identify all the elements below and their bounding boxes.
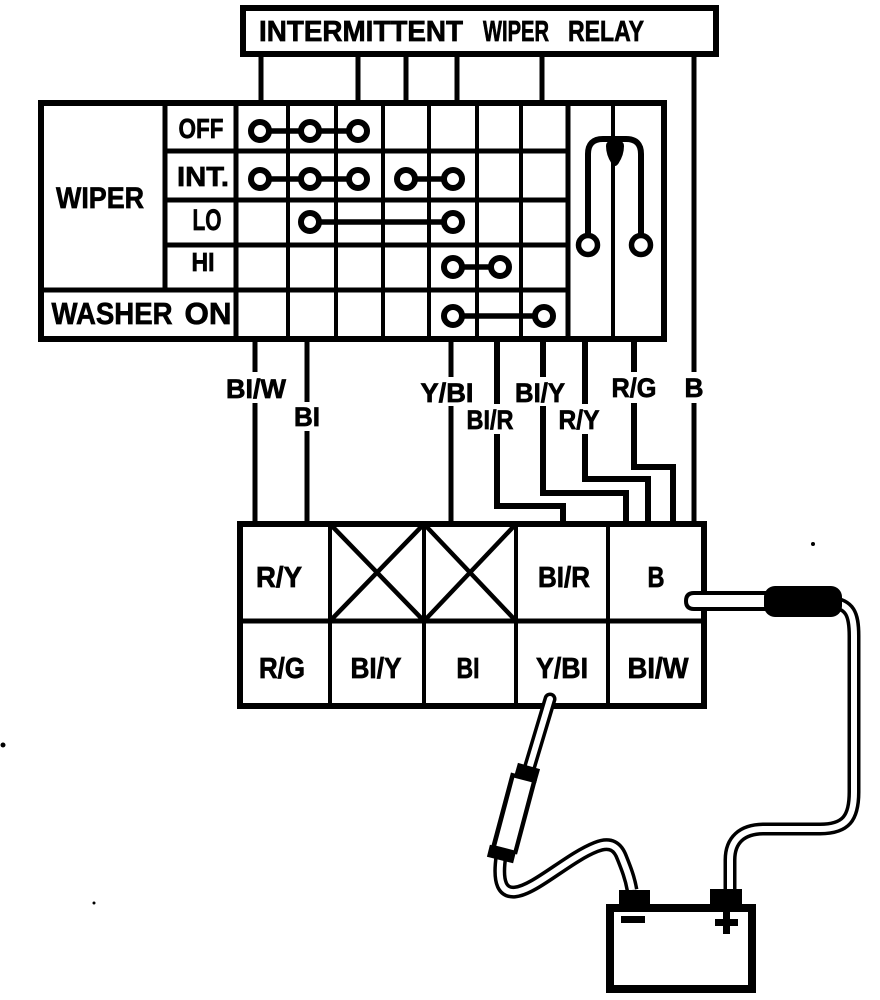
divider WIPER/positions [163, 103, 168, 290]
speck left margin [1, 743, 6, 748]
svg-text:BI/Y: BI/Y [515, 378, 565, 408]
wire stub 2 (title to switch col3) [356, 54, 361, 106]
svg-text:R/Y: R/Y [559, 405, 600, 435]
right test lead cable [730, 602, 854, 893]
wire BI [305, 339, 310, 524]
battery box [610, 908, 752, 989]
wire R/G [634, 339, 673, 524]
INT row contact circles 2 [397, 170, 415, 188]
battery plus sign [715, 911, 738, 934]
svg-text:RELAY: RELAY [568, 16, 644, 48]
right probe rod [686, 593, 772, 609]
label BI [292, 402, 322, 432]
label BI/Y [514, 377, 567, 408]
wire stub 4 (title to switch col5) [455, 54, 460, 106]
LO row contact circles [301, 213, 319, 231]
INT row contact bar 1 [260, 176, 358, 182]
svg-text:BI/W: BI/W [628, 653, 690, 685]
svg-text:R/Y: R/Y [256, 562, 302, 594]
right probe handle [764, 586, 842, 617]
speck right of connector [811, 542, 815, 546]
row line OFF/INT [165, 149, 568, 154]
svg-text:WIPER: WIPER [56, 182, 144, 215]
connector block frame [240, 524, 704, 706]
label B [683, 372, 705, 403]
INT row contact circles 1 [251, 170, 269, 188]
left probe tip rod [529, 699, 550, 769]
OFF row contact circles [251, 122, 269, 140]
svg-text:OFF: OFF [179, 113, 224, 144]
svg-text:LO: LO [193, 204, 222, 237]
relay terminal circle right [632, 236, 651, 255]
title box INTERMITTENT WIPER RELAY [243, 8, 716, 54]
connector vertical dividers [328, 524, 332, 706]
svg-text:BI/R: BI/R [538, 562, 590, 594]
label BI/R [465, 404, 515, 435]
battery minus sign [621, 916, 645, 923]
svg-text:INT.: INT. [177, 161, 229, 192]
svg-text:Y/BI: Y/BI [536, 653, 588, 685]
connector middle line [240, 619, 704, 624]
WASHER row contact circles [444, 307, 462, 325]
HI row contact circles [444, 258, 462, 276]
grid vertical lines [286, 103, 290, 339]
relay center line [611, 103, 615, 339]
battery negative terminal [619, 890, 650, 907]
switch table frame [41, 103, 664, 339]
label R/G [610, 372, 658, 403]
left test lead cable [500, 845, 632, 892]
svg-text:R/G: R/G [612, 373, 657, 403]
svg-text:B: B [685, 373, 704, 403]
wire stub 5 (title to switch col7) [540, 54, 545, 106]
svg-text:BI: BI [457, 653, 480, 685]
label Y/BI [419, 377, 475, 408]
wire stub 1 (title to switch col1) [259, 54, 264, 106]
svg-text:BI/R: BI/R [467, 405, 514, 435]
row line LO/HI [165, 243, 568, 248]
relay arrow contact [606, 140, 624, 166]
label R/Y [557, 404, 601, 435]
wire Y/BI [449, 339, 454, 524]
left probe barrel [500, 776, 524, 860]
svg-text:INTERMITTENT: INTERMITTENT [259, 16, 463, 48]
svg-text:BI/Y: BI/Y [351, 653, 402, 685]
relay staple [588, 139, 641, 234]
row line INT/LO [165, 198, 568, 203]
wire R/Y [585, 339, 648, 524]
wire stub 3 (title to switch col4) [404, 54, 409, 106]
svg-text:WASHER: WASHER [52, 296, 173, 331]
LO row contact bar [310, 219, 453, 225]
INT row contact bar 2 [406, 176, 453, 182]
X cross cell 3 [424, 524, 516, 621]
svg-text:R/G: R/G [259, 653, 305, 685]
OFF row contact bar [260, 128, 358, 134]
svg-text:HI: HI [192, 247, 215, 277]
speck near battery [93, 902, 96, 905]
row line HI/WASHER [41, 288, 568, 293]
svg-text:ON: ON [185, 296, 232, 331]
svg-text:WIPER: WIPER [483, 16, 549, 48]
wire BI/W [253, 339, 258, 524]
left probe ferrule [525, 766, 529, 780]
svg-text:BI/W: BI/W [226, 374, 287, 404]
wire BI/Y [543, 339, 626, 524]
wire BI/R [497, 339, 563, 524]
svg-text:B: B [648, 562, 665, 594]
wire B (title box to connector) [692, 54, 697, 524]
label BI/W [224, 372, 288, 404]
svg-text:BI: BI [294, 402, 320, 432]
battery positive terminal [710, 889, 742, 907]
svg-text:Y/BI: Y/BI [421, 378, 474, 408]
X cross cell 2 [330, 524, 424, 621]
divider grid/relay [566, 103, 571, 339]
divider labels/grid [234, 103, 239, 339]
HI row contact bar [453, 264, 500, 270]
relay terminal circle left [579, 236, 598, 255]
WASHER row contact bar [453, 313, 544, 319]
